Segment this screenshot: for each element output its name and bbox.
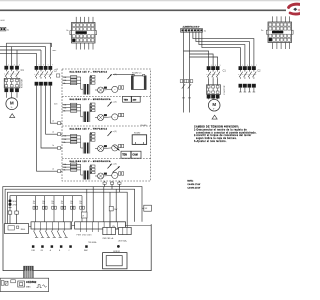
svg-text:B: B	[59, 250, 60, 252]
relay output terminals	[207, 95, 220, 100]
svg-text:C1: C1	[21, 69, 25, 72]
svg-text:+MOV (X) A-: +MOV (X) A-	[118, 239, 128, 242]
connector CN8	[120, 229, 129, 233]
page top edge shadow	[0, 0, 300, 2]
contactor C2 terminals	[35, 65, 54, 70]
row 2 secondary taps	[90, 103, 95, 113]
title icon 4 nested	[18, 281, 25, 287]
row 4 arrow	[108, 163, 117, 168]
svg-text:F-MOTOR: F-MOTOR	[224, 85, 226, 94]
terminal block cells	[72, 24, 94, 42]
svg-text:1-Desconectar el neutro de la: 1-Desconectar el neutro de la regleta de	[194, 129, 247, 132]
row 1 capacitor circle	[104, 86, 118, 92]
svg-text:mm²: mm²	[53, 49, 57, 52]
wire bus N	[0, 52, 37, 54]
dashed enclosure	[62, 69, 151, 181]
wire C2b to transformer row3b	[41, 86, 62, 148]
terminal block body	[268, 22, 292, 43]
row 2 rectifier	[95, 114, 107, 120]
wire drop x105	[103, 187, 105, 228]
svg-text:27: 27	[82, 215, 84, 217]
fuse pair on feed wires	[180, 80, 193, 98]
control board outline	[3, 224, 151, 271]
svg-text:10A: 10A	[63, 163, 67, 166]
row 3 fuses	[62, 135, 83, 149]
wire drop x110	[109, 192, 111, 222]
row 1 output connector	[119, 86, 124, 89]
strip link	[72, 224, 75, 226]
svg-text:a (X): a (X)	[113, 101, 117, 103]
svg-text:16A: 16A	[63, 107, 67, 110]
thermal relay F	[4, 78, 20, 88]
row 4 capacitor circle	[104, 172, 118, 178]
main breaker 2x	[0, 27, 10, 31]
wire taps to C1 right	[184, 51, 218, 66]
svg-text:SALIDAS 115 V - TRIFASICA: SALIDAS 115 V - TRIFASICA	[70, 128, 108, 131]
svg-text:SV-480: SV-480	[141, 125, 147, 127]
row 1 secondary taps	[90, 76, 95, 86]
svg-text:5: 5	[19, 64, 20, 66]
terminal block pins bottom	[76, 43, 93, 50]
arrow row3 to TEN CAM	[114, 146, 120, 151]
terminal block dark cell	[72, 39, 75, 42]
row 2 output connector	[119, 113, 124, 116]
contactor C1 terminals	[207, 65, 221, 70]
title icon 2	[5, 281, 8, 285]
svg-text:7: 7	[256, 65, 257, 67]
svg-text:250: 250	[70, 203, 73, 205]
svg-text:6A: 6A	[63, 82, 66, 85]
svg-text:a (X): a (X)	[113, 163, 117, 165]
bottom connector J1	[24, 266, 34, 278]
notes cambio de tension	[194, 125, 257, 142]
terminal box R2	[119, 227, 132, 234]
terminal block body	[72, 23, 96, 44]
svg-text:2x: 2x	[7, 30, 10, 32]
svg-text:COM: COM	[31, 250, 35, 252]
svg-text:mm²: mm²	[54, 102, 58, 105]
wire feed down left pair	[184, 32, 190, 112]
wire drop x116	[115, 189, 117, 227]
row 4 fuses	[62, 163, 83, 175]
svg-text:REM: REM	[84, 250, 88, 252]
svg-text:ON: ON	[41, 250, 43, 252]
contactor C2 lower terminals	[35, 82, 53, 86]
svg-text:PWR CMD AUX: PWR CMD AUX	[77, 233, 93, 236]
svg-text:2x: 2x	[52, 145, 54, 147]
row 4 rectifier	[95, 173, 107, 179]
svg-text:segun indica la caja de bornes: segun indica la caja de bornes.	[196, 137, 237, 140]
svg-text:2x: 2x	[66, 30, 69, 32]
fuse F2	[15, 211, 19, 214]
terminal box R1	[103, 227, 116, 234]
wire REG to strip	[29, 225, 31, 227]
TEN CAM box row3	[121, 151, 141, 158]
svg-text:250: 250	[51, 203, 54, 205]
row 3 rectifier	[95, 145, 107, 151]
row 4 transformer T4	[83, 171, 90, 180]
isolation slashes	[34, 229, 68, 237]
row 2 arrow	[108, 101, 117, 106]
display window	[103, 253, 127, 269]
svg-text:a (X): a (X)	[113, 131, 117, 133]
SV-480 box row3	[132, 135, 146, 145]
TEN CAM box row2	[123, 96, 141, 102]
row 3 secondary taps	[90, 133, 95, 144]
svg-text:2-Invertir el torque de conexi: 2-Invertir el torque de conexiones del m…	[194, 134, 252, 137]
svg-text:250: 250	[61, 203, 64, 205]
wire feed H2	[5, 189, 135, 223]
svg-text:conexiones y conectar el puent: conexiones y conectar el puente suminist…	[196, 131, 257, 134]
svg-text:250: 250	[33, 203, 36, 205]
nota text	[187, 180, 200, 190]
title block frame	[0, 278, 48, 291]
svg-text:SALIDAS 115 V - TRIFASICA: SALIDAS 115 V - TRIFASICA	[70, 71, 108, 74]
svg-text:10n: 10n	[79, 201, 82, 203]
extra arrow row4	[113, 166, 120, 172]
supply terminal strip	[181, 29, 203, 33]
wire feed H3	[8, 192, 128, 227]
LED row	[31, 245, 88, 252]
thermal relay F	[207, 85, 221, 95]
wire branch to C2 right 1	[193, 32, 254, 66]
svg-text:2x: 2x	[52, 120, 54, 122]
svg-text:10A: 10A	[63, 103, 67, 106]
wire drop x93.2	[92, 187, 94, 222]
terminal block pins bottom	[273, 43, 290, 50]
row 2 fuses	[62, 103, 83, 117]
svg-text:F-MOTOR: F-MOTOR	[22, 79, 24, 88]
delta symbol	[10, 114, 15, 118]
wire bus L2	[0, 46, 46, 48]
svg-text:TXD GND A: TXD GND A	[88, 241, 97, 244]
svg-text:NOTA:: NOTA:	[187, 180, 193, 183]
contactor C2 right lower terminals	[239, 84, 256, 92]
wire bus L1	[6, 43, 51, 47]
svg-text:16A: 16A	[63, 79, 67, 82]
aux component right	[142, 205, 151, 211]
dashed row divider 3	[62, 158, 151, 160]
svg-text:SALIDAS 115 V - MONOFASICA: SALIDAS 115 V - MONOFASICA	[70, 98, 112, 101]
terminal block jumper bar	[272, 31, 283, 34]
header rule	[0, 9, 286, 11]
svg-text:M: M	[10, 101, 14, 106]
title icon 3	[11, 280, 16, 283]
wire feed H4 bus	[10, 196, 82, 224]
connector CN	[110, 222, 125, 229]
contactor C1 contacts	[4, 70, 19, 79]
wire CN to edge	[125, 225, 151, 227]
svg-text:16A: 16A	[63, 166, 67, 169]
relay output terminals	[4, 88, 19, 98]
row 1 rectifier	[95, 87, 107, 93]
svg-text:SALIDAS 115 V - MONOFASICA: SALIDAS 115 V - MONOFASICA	[70, 160, 112, 163]
wire feed H1	[3, 187, 142, 224]
wire drop x86.8	[86, 189, 88, 222]
wire to REG	[16, 196, 18, 224]
wire entry fuse marks	[52, 120, 60, 172]
row 1 fuses	[62, 76, 83, 90]
contactor C2 contacts	[238, 70, 256, 79]
SV-480 CC connector	[131, 74, 146, 89]
dashed row divider 2	[62, 125, 151, 127]
wire branch to C2 right 2	[196, 32, 250, 66]
svg-text:3-Ajustar el rele termico.: 3-Ajustar el rele termico.	[194, 140, 227, 143]
svg-text:CKD502: CKD502	[26, 280, 37, 284]
svg-text:CA 60% 22 kW: CA 60% 22 kW	[187, 186, 200, 189]
motor M	[208, 99, 220, 111]
svg-text:TEN: TEN	[124, 99, 129, 101]
component box x84	[81, 212, 87, 218]
svg-text:10n: 10n	[70, 201, 73, 203]
svg-text:7: 7	[52, 65, 53, 67]
row 2 transformer T2	[83, 112, 90, 123]
svg-text:CAMBIO DE TENSION 400V/230V:: CAMBIO DE TENSION 400V/230V:	[194, 125, 239, 128]
row 2 capacitor circle	[104, 114, 118, 120]
svg-text:C2: C2	[56, 69, 58, 71]
waveform icon	[37, 285, 47, 288]
output stub marks	[103, 182, 121, 184]
svg-text:REG: REG	[21, 229, 26, 231]
svg-text:M: M	[212, 102, 216, 107]
error LED	[117, 245, 120, 248]
terminal block dark cell	[269, 38, 272, 41]
row 1 arrow	[108, 74, 117, 79]
terminal block side tabs	[266, 30, 268, 34]
svg-text:3: 3	[14, 64, 15, 66]
svg-text:16A: 16A	[63, 138, 67, 141]
terminal block jumper bar	[76, 31, 87, 34]
row 3 arrow	[108, 131, 117, 136]
wire C2a to transformer row4	[37, 86, 63, 172]
svg-text:24V: 24V	[114, 209, 118, 211]
svg-text:2x: 2x	[52, 168, 54, 170]
terminal block pins top	[76, 17, 93, 23]
svg-text:SV-480: SV-480	[134, 133, 140, 135]
delta symbol	[212, 115, 217, 119]
terminal block pins top	[273, 16, 290, 22]
row 3 transformer T3	[83, 143, 90, 154]
svg-text:CAM: CAM	[132, 154, 137, 157]
svg-text:4x10: 4x10	[0, 20, 4, 22]
svg-text:6A: 6A	[63, 169, 66, 172]
contactor C2 contacts	[34, 70, 52, 79]
svg-text:2x: 2x	[52, 131, 54, 133]
component on drop	[109, 206, 118, 211]
svg-text:2x: 2x	[261, 30, 264, 32]
svg-text:10A: 10A	[63, 76, 67, 79]
row 4 output connector	[119, 172, 124, 175]
transformer outputs to bus	[105, 181, 120, 192]
svg-text:2x: 2x	[204, 31, 207, 33]
terminal strip 1	[31, 222, 72, 229]
wire C2d to transformer row2	[50, 86, 62, 124]
wire row1 to SV-480	[113, 75, 133, 76]
svg-text:250: 250	[42, 203, 45, 205]
fuse F1	[8, 211, 12, 214]
wire drops to contactor C1 left	[6, 43, 17, 66]
wire branch to C2 right 3	[199, 32, 245, 66]
suppressor network wires	[35, 196, 82, 222]
row 1 transformer T1	[83, 84, 90, 95]
terminal strip 2	[75, 222, 110, 229]
terminal block side tabs	[70, 31, 72, 35]
svg-text:MAX: MAX	[26, 285, 31, 288]
svg-text:1: 1	[8, 64, 9, 66]
wire drops to contactor C2 left	[37, 43, 51, 66]
svg-text:10n: 10n	[61, 201, 64, 203]
svg-text:C2: C2	[257, 70, 261, 73]
svg-text:C: C	[69, 250, 71, 252]
contactor C1 contacts	[206, 70, 220, 79]
svg-text:CA 40% 17 kW: CA 40% 17 kW	[187, 183, 200, 186]
svg-text:250: 250	[79, 203, 82, 205]
svg-text:6A: 6A	[63, 141, 66, 144]
row 4 secondary taps	[90, 165, 95, 174]
contactor C2 terminals	[239, 65, 258, 70]
row 3 capacitor circle	[104, 145, 118, 151]
svg-text:ALIMENTACION 3~: ALIMENTACION 3~	[183, 26, 201, 29]
svg-text:5: 5	[220, 65, 221, 67]
svg-text:10n: 10n	[33, 201, 36, 203]
wire C2c to transformer row3a	[46, 86, 63, 135]
varistor dots	[9, 199, 18, 207]
svg-text:10A: 10A	[63, 135, 67, 138]
svg-text:TEN: TEN	[122, 155, 127, 157]
strip2 stubs	[81, 229, 105, 232]
svg-text:C1: C1	[223, 70, 227, 73]
motor M	[6, 98, 18, 110]
REG module	[4, 224, 28, 234]
logo mark red S with diamond	[289, 4, 300, 14]
dashed row divider 1	[62, 96, 151, 98]
suppressor capacitors	[33, 201, 85, 209]
row 3 output connector	[119, 144, 124, 147]
svg-text:PWR CMD +A-: PWR CMD +A-	[103, 237, 114, 240]
terminal block cells	[269, 23, 291, 41]
wire bus L3	[0, 49, 41, 51]
svg-text:A: A	[50, 249, 52, 252]
wire branch to C2 right 4	[202, 32, 241, 66]
title icon 1	[1, 281, 4, 286]
svg-text:10n: 10n	[42, 201, 45, 203]
svg-text:6A: 6A	[63, 110, 66, 113]
svg-text:10n: 10n	[51, 201, 54, 203]
contactor C1 terminals	[4, 64, 20, 69]
